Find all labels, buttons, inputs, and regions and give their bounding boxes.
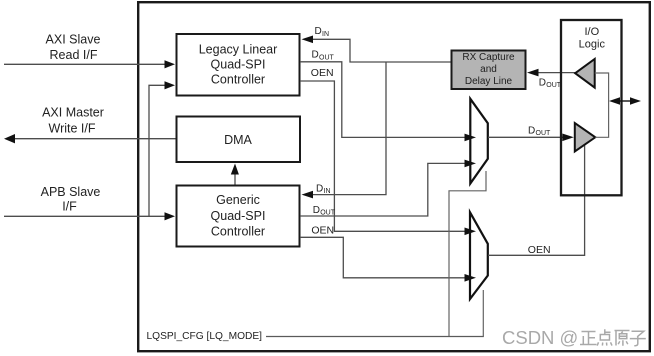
svg-text:Write I/F: Write I/F <box>49 121 96 135</box>
wire I/O input buffer to RX capture <box>538 72 575 74</box>
svg-text:D: D <box>312 50 319 61</box>
svg-text:Controller: Controller <box>211 225 265 239</box>
svg-text:D: D <box>313 205 320 216</box>
wire Generic to DMA vertical <box>234 174 236 185</box>
wire upper mux output D_OUT to output buffer <box>488 136 563 138</box>
svg-text:OUT: OUT <box>546 82 562 89</box>
svg-text:OEN: OEN <box>311 67 334 79</box>
label D_OUT (into RX) <box>539 77 562 89</box>
svg-text:AXI Master: AXI Master <box>42 106 104 120</box>
svg-text:IN: IN <box>322 31 329 38</box>
wire Legacy OEN to lower mux input 1 <box>300 81 465 231</box>
arrowhead into lower mux input 2 <box>465 274 477 282</box>
arrowhead into lower mux input 1 <box>465 228 477 236</box>
wire Legacy D_OUT to upper mux input 1 <box>300 62 465 138</box>
label AXI Master Write I/F <box>42 106 104 136</box>
arrowhead into Legacy pin2 <box>165 81 176 89</box>
svg-text:Delay Line: Delay Line <box>465 76 513 87</box>
arrowhead pad right <box>630 97 641 104</box>
label APB Slave I/F <box>41 185 101 214</box>
block Legacy Linear Quad-SPI Controller <box>177 34 300 96</box>
glyph dian <box>597 329 612 345</box>
svg-text:Read I/F: Read I/F <box>50 48 98 62</box>
arrowhead into Generic D_IN (points left) <box>302 191 314 199</box>
arrowhead up into DMA <box>231 164 239 175</box>
svg-text:D: D <box>528 126 535 137</box>
svg-text:APB Slave: APB Slave <box>41 185 101 199</box>
wire Legacy D_IN from RX capture line <box>312 39 451 62</box>
label D_IN (Legacy) <box>315 26 330 38</box>
svg-text:CSDN @: CSDN @ <box>502 327 578 348</box>
block RX Capture and Delay Line <box>452 51 526 90</box>
wire second input to Legacy (from APB branch), vertical at x=149 <box>149 85 166 216</box>
wire bidirectional pad arrow <box>617 100 633 102</box>
svg-text:LQSPI_CFG [LQ_MODE]: LQSPI_CFG [LQ_MODE] <box>147 331 263 342</box>
svg-text:OEN: OEN <box>311 224 334 236</box>
svg-text:Controller: Controller <box>211 73 265 87</box>
buffer output (lower triangle, points right) <box>575 123 596 152</box>
glyph zi <box>630 331 646 346</box>
wire pad net connecting buffers <box>595 73 609 137</box>
svg-text:I/O: I/O <box>584 26 599 38</box>
mux upper (data mux) <box>470 99 488 184</box>
arrowhead into upper mux input 1 <box>465 134 477 142</box>
svg-text:OUT: OUT <box>536 130 552 137</box>
block Generic Quad-SPI Controller <box>177 186 300 247</box>
svg-text:OUT: OUT <box>319 54 335 61</box>
wire Generic D_OUT to upper mux input 2 <box>300 163 465 216</box>
svg-text:Generic: Generic <box>216 193 260 207</box>
svg-text:and: and <box>480 64 497 75</box>
arrowhead into RX box (points left) <box>527 69 539 77</box>
svg-text:D: D <box>316 183 323 194</box>
wire AXI slave read into Legacy controller <box>4 63 166 65</box>
wire LQSPI_CFG select line <box>266 336 484 338</box>
wire upper mux select from LQSPI_CFG <box>449 171 486 337</box>
label AXI Slave Read I/F <box>46 33 101 63</box>
svg-text:RX Capture: RX Capture <box>462 52 515 63</box>
label D_OUT (Generic) <box>313 205 336 217</box>
glyph yuan <box>615 331 630 346</box>
svg-text:AXI Slave: AXI Slave <box>46 33 101 47</box>
buffer input (upper triangle, points left) <box>575 59 595 88</box>
label D_IN (Generic) <box>316 183 331 195</box>
arrowhead pad left <box>609 97 620 104</box>
wire D_IN branch to Generic controller <box>312 62 386 195</box>
svg-text:IN: IN <box>324 188 331 195</box>
label D_OUT (Legacy) <box>312 50 335 62</box>
svg-text:D: D <box>315 26 322 37</box>
glyph zheng <box>580 332 597 345</box>
svg-text:D: D <box>539 77 546 88</box>
svg-text:OEN: OEN <box>528 244 551 256</box>
wire lower mux select from LQSPI_CFG <box>482 290 484 337</box>
mux lower (OEN mux) <box>470 212 488 299</box>
wire lower mux output OEN to buffer enable <box>488 145 585 256</box>
svg-text:Legacy Linear: Legacy Linear <box>199 43 278 57</box>
block I/O Logic <box>561 20 622 195</box>
label D_OUT (mux output) <box>528 126 551 138</box>
wire AXI master write from DMA <box>14 138 176 140</box>
arrowhead into Legacy D_IN (points left) <box>302 36 314 44</box>
svg-text:DMA: DMA <box>224 133 252 147</box>
svg-text:Logic: Logic <box>579 39 606 51</box>
outer system boundary box <box>138 2 650 351</box>
arrowhead AXI master (points left) <box>4 134 15 143</box>
svg-text:I/F: I/F <box>62 200 77 214</box>
wire APB slave into Generic controller <box>4 215 166 217</box>
block DMA <box>177 117 301 163</box>
arrowhead into Generic <box>165 212 176 220</box>
arrowhead into Legacy pin1 <box>165 60 176 68</box>
arrowhead into output buffer <box>562 134 574 142</box>
arrowhead into upper mux input 2 <box>465 160 477 168</box>
svg-text:Quad-SPI: Quad-SPI <box>211 58 266 72</box>
watermark CSDN <box>502 327 646 348</box>
wire Generic OEN to lower mux input 2 <box>300 237 465 277</box>
svg-text:Quad-SPI: Quad-SPI <box>211 209 266 223</box>
